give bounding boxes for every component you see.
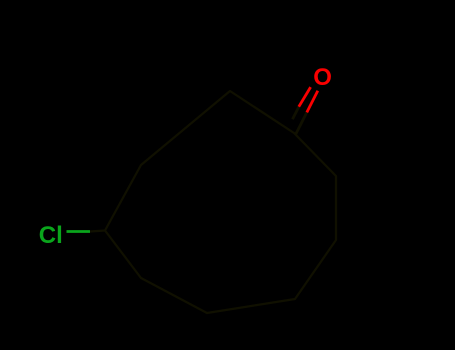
ring: large carbocycle: [105, 91, 336, 313]
carbonyl double bond C=O : inner stroke carbon half (dark): [293, 107, 299, 120]
bond Cl-C1 (carbon half, dark): [90, 231, 105, 232]
svg-text:O: O: [313, 64, 332, 91]
svg-text:Cl: Cl: [39, 222, 63, 249]
bond Cl-C1 (chlorine half, green): [67, 230, 91, 233]
carbonyl double bond C=O : outer stroke carbon half (dark): [296, 112, 307, 134]
carbonyl double bond C=O : outer stroke oxygen half (red): [307, 91, 318, 113]
carbonyl double bond C=O : inner stroke oxygen half (red): [299, 87, 311, 107]
